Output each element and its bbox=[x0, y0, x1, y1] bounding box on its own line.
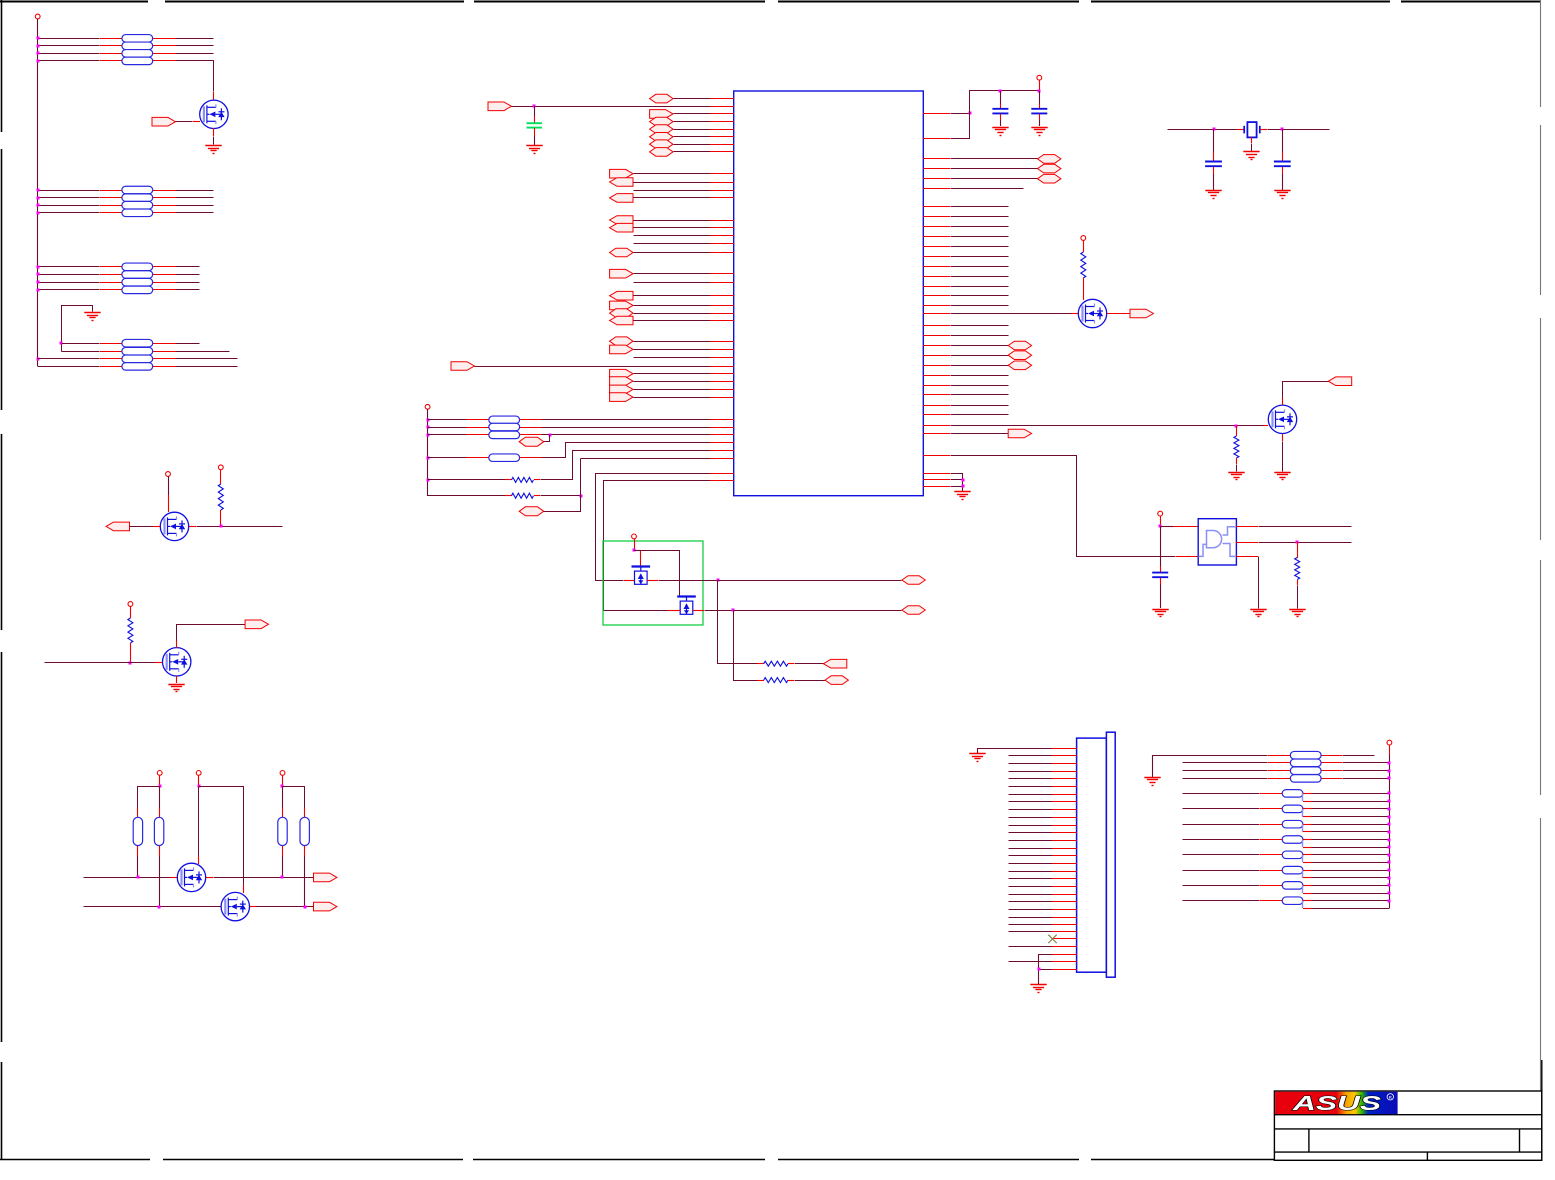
wire R5 row left bbox=[428, 495, 506, 497]
wire RP1 row2 right bbox=[176, 45, 214, 47]
net tag U1 left pin 4 bbox=[650, 125, 673, 134]
wire RP5 row1 pin left bbox=[466, 419, 489, 421]
wire U1 left pin 4 bbox=[674, 129, 711, 131]
pin U1 left mid 16 bbox=[710, 341, 734, 343]
junction bus RS8 bbox=[1388, 900, 1391, 903]
wire Q4 drain bbox=[198, 787, 200, 857]
pin J1 row25 bbox=[1052, 931, 1077, 933]
wire RP1 row3 left bbox=[38, 53, 100, 55]
wire U2 gnd bbox=[1258, 557, 1260, 609]
wire M1 drain bbox=[634, 550, 641, 552]
pin U1 right blk1 bbox=[923, 206, 950, 208]
wire net A right bbox=[214, 877, 314, 879]
wire RP5 row3 pin right bbox=[520, 434, 542, 436]
ground C6 bbox=[1274, 191, 1290, 199]
wire RS5 pin left bbox=[1260, 854, 1282, 856]
wire RS6 out bbox=[1312, 870, 1390, 872]
wire RS3 left bbox=[1183, 824, 1260, 826]
pin J1 row16 bbox=[1052, 863, 1077, 865]
wire RP6 row3 pin right bbox=[1321, 770, 1342, 772]
wire RS7 pin left bbox=[1260, 885, 1282, 887]
wire U1 left pin 7 bbox=[674, 151, 711, 153]
resistor RS7 bbox=[1282, 882, 1303, 890]
net tag long input bbox=[451, 362, 474, 371]
wire U1 right blk15 bbox=[951, 385, 1009, 387]
pin J1 row7 bbox=[1052, 794, 1077, 796]
net tag U1 left mid 22 bbox=[610, 393, 633, 402]
pin J1 row4 bbox=[1052, 771, 1077, 773]
wire Q1 source pin bbox=[213, 128, 215, 136]
wire RV4 pin top bbox=[304, 808, 306, 817]
wire RP3 row4 right bbox=[176, 289, 200, 291]
transistor Q4 bbox=[177, 863, 205, 891]
wire U2 out2 bbox=[1259, 542, 1352, 544]
power symbol VCC11 bbox=[1081, 236, 1086, 241]
pin J1 row26 bbox=[1052, 946, 1077, 948]
pin U1 right mtag1 bbox=[923, 345, 950, 347]
wire RP6 row3 left bbox=[1183, 770, 1268, 772]
wire RP3 row2 right bbox=[176, 274, 200, 276]
wire J1 row21 bbox=[1009, 901, 1053, 903]
wire J1 row3 bbox=[1009, 763, 1053, 765]
power symbol VCC12 bbox=[1158, 511, 1163, 516]
power symbol VCC13 bbox=[1387, 740, 1392, 745]
resistor RS5 bbox=[1282, 851, 1303, 859]
junction VCC9 bbox=[633, 549, 636, 552]
pin U1 left mid 13 bbox=[710, 305, 734, 307]
wire Q1 gate bbox=[176, 121, 193, 123]
net tag elbow bbox=[519, 437, 544, 446]
wire RS7 jog bbox=[1302, 885, 1304, 893]
resistor R5 bbox=[512, 493, 534, 498]
pin U1 left 6 bbox=[710, 144, 734, 146]
pin U1 left stair3 bbox=[710, 458, 734, 460]
wire ground elbow bbox=[62, 306, 93, 352]
pin U1 right blk3 bbox=[923, 226, 950, 228]
wire Q2 drain pin bbox=[168, 495, 170, 512]
junction bus RS7 bbox=[1388, 884, 1391, 887]
wire C4 ground bbox=[1160, 584, 1162, 608]
power symbol VCC3 bbox=[218, 465, 223, 470]
pin U1 left v5 bbox=[710, 480, 734, 482]
wire Q3 source pin bbox=[176, 676, 178, 683]
wire RP1 row1 right bbox=[176, 38, 214, 40]
junction gnd bus 1 bbox=[962, 479, 965, 482]
wire RS6 jog pin bbox=[1303, 877, 1312, 879]
pin J1 row29 bbox=[1052, 969, 1077, 971]
net tag U1 right 3 bbox=[1038, 174, 1061, 183]
resistor R2 bbox=[128, 618, 133, 643]
resistor pack RP2 element 4 bbox=[122, 209, 153, 217]
ground R10 bbox=[1289, 610, 1305, 617]
pin U1 left 7 bbox=[710, 151, 734, 153]
ground Q7 bbox=[1274, 473, 1290, 480]
wire J1 row26 bbox=[1009, 946, 1053, 948]
pin J1 row14 bbox=[1052, 848, 1077, 850]
wire U1 left mid 8 bbox=[634, 243, 711, 245]
wire M1 out bbox=[659, 580, 718, 582]
pin U1 right tag2 bbox=[923, 168, 950, 170]
net tag Q1 gate bbox=[152, 117, 175, 126]
pin J1 row12 bbox=[1052, 832, 1077, 834]
power symbol VCC8 bbox=[425, 404, 430, 409]
pin J1 row18 bbox=[1052, 878, 1077, 880]
wire VCC13 stem bbox=[1389, 745, 1391, 755]
junction bus RS2 bbox=[1388, 808, 1391, 811]
wire U1 left mid 12 bbox=[634, 295, 711, 297]
wire RS2 jog bbox=[1302, 809, 1304, 817]
wire RP6 row4 pin right bbox=[1321, 778, 1342, 780]
junction bus RP6 2 bbox=[1388, 762, 1391, 765]
wire RP5 row2 left bbox=[428, 427, 467, 429]
wire R5 row right bbox=[541, 495, 581, 497]
wire Q1 drain pin bbox=[213, 92, 215, 100]
transistor M1 bbox=[632, 567, 651, 585]
wire U1 right tag3 bbox=[951, 178, 1038, 180]
wire RS8 jog bbox=[1302, 901, 1304, 908]
resistor R6 bbox=[764, 661, 788, 666]
junction R5 stair bbox=[580, 495, 583, 498]
pin J1 row20 bbox=[1052, 894, 1077, 896]
wire R4 pin right bbox=[534, 479, 540, 481]
wire R4 row left bbox=[428, 479, 506, 481]
net tag U1 left mid 21 bbox=[610, 385, 633, 394]
wire U1 left pin 1 bbox=[674, 98, 711, 100]
wire RP2 row1 left bbox=[38, 190, 100, 192]
junction RV3-A bbox=[281, 876, 284, 879]
ground C1 bbox=[526, 146, 542, 154]
pin J1 row5 bbox=[1052, 778, 1077, 780]
wire J1 row22 bbox=[1009, 909, 1053, 911]
power symbol VCC5 bbox=[157, 771, 162, 776]
net tag B bbox=[314, 902, 337, 911]
pin J1 row27 bbox=[1052, 954, 1077, 956]
wire U1 left pin 2 bbox=[674, 113, 711, 115]
wire C4 pin bottom bbox=[1160, 578, 1162, 584]
junction bus RS1b bbox=[1388, 800, 1391, 803]
wire RV3 bottom bbox=[282, 856, 284, 877]
wire U1 left mid 6 bbox=[634, 227, 711, 229]
wire RP2 row1 right bbox=[176, 190, 214, 192]
wire U1 right gnd2 bbox=[951, 479, 963, 481]
pin J1 row28 bbox=[1052, 961, 1077, 963]
wire R8 bottom stem bbox=[1083, 278, 1085, 300]
wire U2 out1 bbox=[1259, 526, 1352, 528]
wire Q7 drain pin bbox=[1282, 398, 1284, 405]
wire RP6 gnd stem bbox=[1152, 755, 1154, 777]
wire RS8 pin right bbox=[1303, 900, 1312, 902]
wire RP2 row3 pin left bbox=[100, 205, 122, 207]
resistor RV3 bbox=[278, 817, 287, 845]
wire RP6 row2 pin right bbox=[1321, 762, 1342, 764]
wire U1 right gnd3 bbox=[951, 486, 963, 488]
junction U2 pwr bbox=[1159, 525, 1162, 528]
wire RV4 bottom bbox=[304, 856, 306, 907]
wire RP4 row4 left bbox=[38, 366, 100, 368]
junction RV4-B bbox=[304, 906, 307, 909]
wire RP4 row4 right bbox=[176, 366, 238, 368]
wire U1 left mid 17 bbox=[634, 349, 711, 351]
junction RP3 row1 bbox=[37, 266, 40, 269]
wire RP4 row2 pin right bbox=[153, 351, 176, 353]
wire M2 drain elbow bbox=[635, 551, 680, 598]
wire J1 row9 bbox=[1009, 809, 1053, 811]
net tag U1 left pin 3 bbox=[650, 117, 673, 126]
net tag Q6 source bbox=[1130, 309, 1153, 318]
wire RV1 bottom bbox=[137, 856, 139, 877]
wire Q5 gate pin bbox=[221, 906, 228, 908]
wire J1 row19 bbox=[1009, 886, 1053, 888]
pin U1 right blk8 bbox=[923, 276, 950, 278]
wire RP4 row2 right bbox=[176, 351, 230, 353]
wire CLK input bbox=[512, 106, 711, 108]
power symbol VCC2 bbox=[166, 472, 171, 477]
wire RP1 row1 pin left bbox=[100, 38, 122, 40]
wire U2 in2 pin bbox=[1176, 556, 1198, 558]
junction R4 row bbox=[427, 479, 430, 482]
capacitor C5 bbox=[1205, 162, 1222, 167]
wire R5 pin left bbox=[505, 495, 512, 497]
capacitor C6 bbox=[1274, 162, 1291, 167]
wire RP6 row2 right bbox=[1343, 762, 1390, 764]
pin U1 left long bbox=[710, 366, 734, 368]
wire R10 ground bbox=[1297, 586, 1299, 609]
svg-text:ASUS: ASUS bbox=[1291, 1092, 1381, 1115]
wire RP3 row2 pin right bbox=[153, 274, 176, 276]
wire R1 bottom stem bbox=[220, 510, 222, 526]
pin J1 row23 bbox=[1052, 917, 1077, 919]
ground R9 bbox=[1228, 473, 1244, 480]
wire RP6 row2 left bbox=[1183, 762, 1268, 764]
wire J1 row27 bbox=[1039, 954, 1053, 956]
wire U2 out2 pin bbox=[1236, 542, 1258, 544]
wire RV2 bottom bbox=[159, 856, 161, 907]
net tag U1 right 1 bbox=[1038, 155, 1061, 164]
wire RS2 out bbox=[1312, 808, 1390, 810]
wire RS7 jog pin bbox=[1303, 893, 1312, 895]
transistor Q1 bbox=[200, 100, 228, 128]
pin U1 right gnd3 bbox=[923, 486, 950, 488]
wire Q2 source pin bbox=[189, 526, 196, 528]
wire U1 right 6 bbox=[951, 188, 1024, 190]
pin U1 left mid 22 bbox=[710, 397, 734, 399]
wire C3 ground bbox=[1039, 120, 1041, 126]
wire RS3 out bbox=[1312, 824, 1390, 826]
wire U1 right blk9 bbox=[951, 286, 1009, 288]
net tag U1 left pin 6 bbox=[650, 140, 673, 149]
pin U1 left mid 21 bbox=[710, 389, 734, 391]
resistor pack RP4 element 2 bbox=[122, 347, 153, 355]
wire U1 right mtag3 bbox=[951, 365, 1009, 367]
wire RP3 row4 left bbox=[38, 289, 100, 291]
wire RS5 jog bbox=[1302, 855, 1304, 862]
wire RP4 row3 left bbox=[38, 358, 100, 360]
wire U1 left mid 13 bbox=[634, 305, 711, 307]
resistor pack RP2 element 2 bbox=[122, 194, 153, 202]
wire RP2 row4 right bbox=[176, 212, 214, 214]
junction R10 bbox=[1296, 541, 1299, 544]
wire J1 row15 bbox=[1009, 855, 1053, 857]
net tag U1 right mid 3 bbox=[1008, 361, 1031, 370]
junction XTAL1 bbox=[1213, 128, 1216, 131]
ground J1 top bbox=[969, 754, 985, 762]
wire RS1 jog bbox=[1302, 793, 1304, 801]
wire RS1 pin right bbox=[1303, 793, 1312, 795]
wire RV2 pin top bbox=[159, 808, 161, 817]
resistor RS4 bbox=[1282, 836, 1303, 844]
net tag U1 left mid 15 bbox=[610, 316, 633, 325]
net tag U1 left pin 2 bbox=[650, 110, 673, 119]
power symbol VCC7 bbox=[280, 771, 285, 776]
resistor pack RP4 element 3 bbox=[122, 355, 153, 363]
junction bus RP6 3 bbox=[1388, 770, 1391, 773]
wire Q5 source pin bbox=[250, 906, 257, 908]
wire Q3 drain pin bbox=[176, 640, 178, 648]
junction bus RS1 bbox=[1388, 792, 1391, 795]
wire R7 feed bbox=[734, 611, 758, 681]
wire RS3 jog out bbox=[1312, 831, 1390, 833]
wire M2 out bbox=[705, 610, 734, 612]
ground U1 right bbox=[954, 492, 970, 500]
pin U1 left CLK bbox=[710, 106, 734, 108]
wire Q2 drain bbox=[168, 476, 170, 495]
net tag U1 left mid 4 bbox=[610, 194, 633, 203]
wire U1 right blk13 bbox=[951, 335, 1009, 337]
wire RS4 left bbox=[1183, 839, 1260, 841]
pin U1 left mid 10 bbox=[710, 273, 734, 275]
wire RP2 row1 pin left bbox=[100, 190, 122, 192]
pin J1 row8 bbox=[1052, 801, 1077, 803]
pin U1 left 4 bbox=[710, 129, 734, 131]
wire R1 top stem bbox=[220, 470, 222, 484]
junction RP2 row4 bbox=[37, 212, 40, 215]
IC U1 bbox=[734, 91, 924, 496]
power symbol VCC9 bbox=[632, 534, 637, 539]
wire R3 pin left bbox=[466, 457, 489, 459]
wire RP2 row2 right bbox=[176, 197, 214, 199]
net tag A bbox=[314, 873, 337, 882]
wire Q3 gate pin bbox=[155, 662, 162, 664]
wire RP6 row1 left bbox=[1153, 755, 1268, 757]
wire Q3 gate bbox=[45, 662, 156, 664]
junction bus RS6b bbox=[1388, 877, 1391, 880]
wire VCC1 stem bbox=[37, 19, 39, 38]
pin U1 right blk9 bbox=[923, 286, 950, 288]
junction bus RS4 bbox=[1388, 839, 1391, 842]
wire R3 row left bbox=[428, 457, 467, 459]
wire RP5 row2 pin right bbox=[520, 427, 542, 429]
wire crystal net right bbox=[1268, 129, 1330, 131]
pin U1 right 6 bbox=[923, 188, 950, 190]
junction bus RS2b bbox=[1388, 816, 1391, 819]
wire RS8 pin left bbox=[1260, 900, 1282, 902]
wire U1 left mid 5 bbox=[634, 220, 711, 222]
wire RP3 row4 pin right bbox=[153, 289, 176, 291]
wire U1 right blk10 bbox=[951, 295, 1009, 297]
wire J1 row17 bbox=[1009, 871, 1053, 873]
resistor pack RP4 element 4 bbox=[122, 363, 153, 371]
pin U1 right tag3 bbox=[923, 178, 950, 180]
wire RP1 row4 pin left bbox=[100, 60, 122, 62]
wire VCC6 stem bbox=[198, 775, 200, 786]
wire RS5 jog pin bbox=[1303, 862, 1312, 864]
wire RP6 row1 right bbox=[1343, 755, 1375, 757]
wire U2 in1 maroon bbox=[1160, 526, 1173, 528]
pin U1 right gnd1 bbox=[923, 473, 950, 475]
wire M2 row pin left bbox=[668, 610, 680, 612]
wire Q1 drain bbox=[176, 61, 214, 92]
wire M1 drain stem bbox=[640, 550, 642, 566]
wire RS6 jog out bbox=[1312, 877, 1390, 879]
pin U1 right Q6 gate bbox=[923, 313, 950, 315]
wire U1 right blk8 bbox=[951, 276, 1009, 278]
wire J1 gnd bus bbox=[1038, 954, 1040, 984]
pin U1 left mid 1 bbox=[710, 173, 734, 175]
wire M2 row pin right bbox=[693, 610, 704, 612]
net tag U1 left mid 14 bbox=[610, 309, 633, 318]
junction RP1 row1 bbox=[37, 37, 40, 40]
wire Q7 drain bbox=[1283, 382, 1329, 399]
wire U1 right blk16 bbox=[951, 394, 1009, 396]
net tag U1 left pin 7 bbox=[650, 148, 673, 157]
wire R5 pin right bbox=[534, 495, 540, 497]
wire RP4 row3 right bbox=[176, 358, 238, 360]
ground C5 bbox=[1205, 191, 1221, 199]
wire C1 stem bbox=[534, 106, 536, 116]
wire Q5 drain elbow bbox=[199, 787, 244, 886]
net tag M2 out bbox=[902, 606, 925, 615]
wire RP1 row1 left bbox=[38, 38, 100, 40]
net tag U1 left mid 12 bbox=[610, 291, 633, 300]
pin J1 row6 bbox=[1052, 786, 1077, 788]
pin U1 left 3 bbox=[710, 121, 734, 123]
pin U1 right blk4 bbox=[923, 236, 950, 238]
wire J1 row7 bbox=[1009, 794, 1053, 796]
wire RP3 row3 pin right bbox=[153, 282, 176, 284]
resistor pack RP5 element 2 bbox=[489, 423, 520, 431]
net class box (green) bbox=[603, 541, 703, 625]
transistor Q3 bbox=[163, 648, 191, 676]
wire C4 pin top bbox=[1160, 566, 1162, 572]
wire VCC5 stem bbox=[159, 775, 161, 786]
junction C2 rail bbox=[999, 90, 1002, 93]
wire array bus bbox=[1389, 755, 1391, 908]
junction RV2-B bbox=[158, 906, 161, 909]
junction RV1-A bbox=[137, 876, 140, 879]
wire RP4 row2 left bbox=[62, 351, 100, 353]
pin J1 row9 bbox=[1052, 809, 1077, 811]
wire R9 ground bbox=[1236, 465, 1238, 472]
pin J1 row11 bbox=[1052, 825, 1077, 827]
wire U1 right blk18 bbox=[951, 414, 1009, 416]
pin U1 left mid 7 bbox=[710, 235, 734, 237]
ground C4 bbox=[1152, 610, 1168, 617]
wire RP4 row2 pin left bbox=[100, 351, 122, 353]
net tag U1 right 2 bbox=[1038, 164, 1061, 173]
wire RS2 jog out bbox=[1312, 816, 1390, 818]
wire RP6 row4 right bbox=[1343, 778, 1390, 780]
pin U1 left stair1 bbox=[710, 442, 734, 444]
crystal Y1 bbox=[1244, 122, 1260, 137]
net tag U1 right mid 2 bbox=[1008, 351, 1031, 360]
net tag Q7 drain bbox=[1328, 377, 1351, 386]
wire Q4 drain pin bbox=[198, 856, 200, 864]
pin U1 left 1 bbox=[710, 98, 734, 100]
wire RP4 row3 pin left bbox=[100, 358, 122, 360]
junction VCC5 rail bbox=[159, 785, 162, 788]
wire RP2 row4 left bbox=[38, 212, 100, 214]
pin U1 left mid 9 bbox=[710, 252, 734, 254]
